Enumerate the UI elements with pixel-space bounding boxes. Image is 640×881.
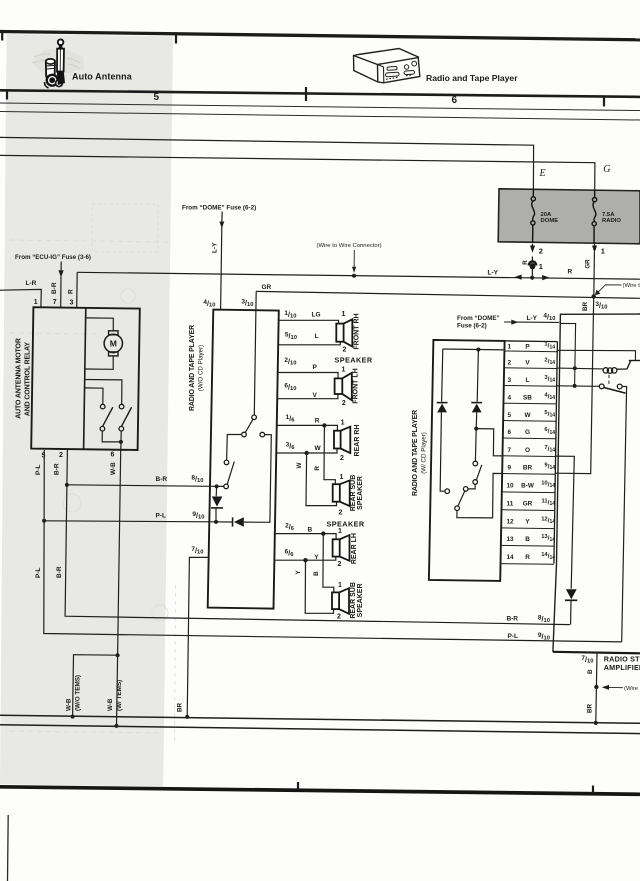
switch blade bbox=[604, 388, 626, 394]
interior wiring bbox=[440, 349, 505, 518]
svg-text:(W/ TEMS): (W/ TEMS) bbox=[116, 680, 123, 711]
junction dot row2 bbox=[573, 366, 577, 370]
svg-text:B-R: B-R bbox=[53, 463, 60, 475]
svg-text:W: W bbox=[524, 412, 531, 419]
pin 6/10 wire V bbox=[278, 394, 338, 399]
svg-text:BR: BR bbox=[177, 702, 184, 712]
L-R wire into relay pin 1 bbox=[0, 289, 41, 307]
speaker REAR SUB (upper) bbox=[333, 480, 350, 506]
svg-text:2: 2 bbox=[340, 455, 344, 462]
svg-text:R: R bbox=[525, 554, 530, 561]
radio stereo amplifier top edge bbox=[553, 652, 640, 654]
bottom-left page corner mark bbox=[7, 815, 10, 881]
svg-text:From “ECU-IG” Fuse (3-6): From “ECU-IG” Fuse (3-6) bbox=[15, 254, 91, 261]
diode D1 (down) bbox=[212, 497, 223, 507]
svg-text:Radio and Tape Player: Radio and Tape Player bbox=[426, 73, 518, 83]
top heavy border line bbox=[0, 32, 640, 40]
radio and tape player (W/ CD) box bbox=[429, 340, 505, 581]
junction dot under SW-R bbox=[119, 440, 123, 444]
svg-text:RADIO AND TAPE PLAYER: RADIO AND TAPE PLAYER bbox=[189, 325, 196, 411]
svg-text:P: P bbox=[313, 364, 318, 371]
svg-text:Fuse (6-2): Fuse (6-2) bbox=[457, 323, 487, 330]
fuse 20A DOME bbox=[531, 189, 536, 243]
svg-text:3: 3 bbox=[508, 377, 512, 384]
relay switch SW-L bbox=[100, 404, 105, 409]
junction dot on 9/10 wire bbox=[214, 520, 218, 524]
svg-text:V: V bbox=[313, 392, 318, 399]
svg-text:9: 9 bbox=[508, 465, 512, 472]
B branch to rear sub2 pin1 bbox=[323, 534, 334, 593]
svg-text:2: 2 bbox=[539, 247, 543, 256]
svg-text:V: V bbox=[525, 360, 530, 367]
row1 extension to contact bar bbox=[557, 350, 635, 360]
svg-text:GR: GR bbox=[523, 501, 533, 508]
svg-text:L-R: L-R bbox=[26, 280, 37, 287]
svg-text:L-Y: L-Y bbox=[527, 315, 538, 322]
svg-text:AMPLIFIER: AMPLIFIER bbox=[604, 663, 640, 672]
svg-text:GR: GR bbox=[584, 259, 591, 269]
svg-text:13: 13 bbox=[507, 536, 515, 543]
svg-text:E: E bbox=[539, 168, 546, 179]
svg-text:P-L: P-L bbox=[35, 568, 42, 579]
svg-text:2: 2 bbox=[508, 360, 512, 367]
relay internal divider bbox=[84, 308, 86, 449]
pin 2 B-R wire down bbox=[65, 450, 570, 625]
wire A corner down to relay pin 3 bbox=[76, 272, 79, 307]
wire B-R relay pin2 to pin 8/10 bbox=[67, 485, 211, 487]
junction dot fuse DOME to wire A bbox=[530, 276, 534, 280]
switch circles bbox=[445, 489, 450, 494]
relay switch SW-R bbox=[119, 404, 124, 409]
wire B corner down to pin 3/10 bbox=[255, 291, 257, 310]
junction dot top wire bbox=[476, 348, 480, 352]
auto antenna motor and control relay box bbox=[31, 307, 140, 450]
svg-text:1: 1 bbox=[601, 247, 605, 256]
svg-text:B-W: B-W bbox=[521, 483, 535, 490]
svg-text:B: B bbox=[587, 669, 594, 674]
svg-text:(Wire t: (Wire t bbox=[623, 283, 640, 289]
branch from 4/10 riser to relay rows bbox=[560, 323, 576, 386]
connector half-round, pin 1 bbox=[529, 261, 536, 265]
wire P-L relay pin5 to pin 9/10 bbox=[44, 521, 211, 522]
relay coil L1 bbox=[603, 368, 627, 374]
svg-text:W-B: W-B bbox=[66, 698, 73, 711]
svg-text:AND CONTROL RELAY: AND CONTROL RELAY bbox=[25, 342, 32, 417]
svg-text:G: G bbox=[525, 429, 530, 436]
junction dot P-L bbox=[42, 519, 46, 523]
auto antenna icon bbox=[31, 39, 84, 88]
junction dot row3 bbox=[573, 384, 577, 388]
svg-text:6: 6 bbox=[508, 429, 512, 436]
svg-text:6: 6 bbox=[452, 95, 458, 106]
junction dot B-R bbox=[65, 483, 69, 487]
dot W/O TEMS on rail1 bbox=[71, 715, 75, 719]
fuse 7.5A RADIO bbox=[592, 190, 597, 243]
bottom heavy border line bbox=[0, 787, 640, 795]
wire-to-wire arrows on wire A bbox=[514, 275, 521, 280]
svg-text:BR: BR bbox=[582, 301, 589, 311]
svg-text:FRONT RH: FRONT RH bbox=[353, 313, 360, 349]
svg-text:B: B bbox=[525, 536, 530, 543]
speaker REAR RH bbox=[334, 427, 350, 453]
svg-text:From “DOME” Fuse (6-2): From “DOME” Fuse (6-2) bbox=[182, 205, 256, 212]
row2 extension with relay coil bbox=[557, 367, 603, 370]
wire to fuse G (top feed) bbox=[0, 155, 595, 190]
svg-text:2: 2 bbox=[338, 561, 342, 568]
svg-text:O: O bbox=[525, 447, 530, 454]
thin rule B bbox=[0, 112, 640, 121]
svg-text:REAR LH: REAR LH bbox=[351, 533, 358, 564]
svg-text:AUTO ANTENNA MOTOR: AUTO ANTENNA MOTOR bbox=[16, 338, 23, 419]
svg-text:5: 5 bbox=[508, 412, 512, 419]
wire GR run (wire B) bbox=[256, 291, 640, 298]
svg-text:L: L bbox=[526, 377, 530, 384]
W-B (W/O TEMS) branch bbox=[73, 655, 118, 717]
svg-text:P: P bbox=[525, 344, 530, 351]
contact bar bbox=[629, 360, 640, 362]
connector arrow below DOME fuse, pin 2 bbox=[530, 246, 535, 253]
switch circles bbox=[252, 415, 257, 420]
BR continues to ground rail bbox=[595, 687, 598, 723]
svg-text:Auto Antenna: Auto Antenna bbox=[72, 72, 133, 82]
ground rail 1 bbox=[0, 715, 640, 723]
junction dot GR / wire B bbox=[592, 294, 596, 298]
motor M1 bbox=[109, 331, 118, 335]
svg-text:B-R: B-R bbox=[506, 616, 518, 623]
svg-text:1: 1 bbox=[342, 366, 346, 373]
ruler tick x306 bbox=[305, 87, 307, 101]
svg-text:SPEAKER: SPEAKER bbox=[327, 519, 365, 528]
svg-text:(W/O TEMS): (W/O TEMS) bbox=[75, 675, 82, 711]
svg-text:REAR RH: REAR RH bbox=[354, 425, 361, 457]
svg-text:(W/ CD Player): (W/ CD Player) bbox=[420, 432, 427, 474]
row3 extension to switch bbox=[557, 385, 600, 388]
connector arrow below RADIO fuse, pin 1 bbox=[592, 246, 597, 253]
diode D3 (up) bbox=[437, 402, 448, 404]
switch contact circles bbox=[599, 384, 604, 389]
tick above bottom border x298 bbox=[297, 782, 299, 790]
svg-text:R: R bbox=[522, 260, 529, 265]
speaker REAR SUB (lower) bbox=[332, 588, 349, 614]
svg-text:W: W bbox=[315, 445, 322, 452]
svg-text:SPEAKER: SPEAKER bbox=[357, 476, 364, 510]
svg-text:B-R: B-R bbox=[51, 282, 58, 294]
pin 1/10 wire LG bbox=[279, 320, 339, 323]
pin 6 W-B wire down bbox=[117, 450, 121, 726]
svg-text:P-L: P-L bbox=[35, 465, 42, 476]
diode D5 (down) bbox=[566, 589, 577, 599]
L-Y feed arrow to 4/10 riser bbox=[504, 321, 513, 323]
diode D4 (up) bbox=[471, 402, 482, 404]
svg-text:P-L: P-L bbox=[508, 633, 519, 640]
junction dot on 8/10 wire bbox=[215, 484, 219, 488]
4/10 long wire: right edge, down beside table, to amplifier top bbox=[553, 314, 640, 652]
ghost bleed-through marks in band bbox=[10, 204, 176, 745]
B-R feed arrow into relay pin 7 bbox=[60, 262, 62, 272]
svg-text:BR: BR bbox=[523, 465, 533, 472]
row texts bbox=[507, 342, 556, 562]
svg-text:1: 1 bbox=[338, 528, 342, 535]
svg-text:DOME: DOME bbox=[541, 218, 559, 224]
svg-text:R: R bbox=[68, 289, 75, 294]
switch commons to pin 6 bbox=[102, 431, 121, 450]
diode D2 (left) bbox=[234, 517, 244, 527]
ruler tick x604 bbox=[603, 97, 605, 107]
ruler tick x7 bbox=[6, 91, 8, 100]
svg-text:(Wire: (Wire bbox=[624, 686, 639, 692]
wire A : L-Y / R horizontal run bbox=[77, 272, 640, 279]
pin 6/6 wire Y bbox=[275, 557, 336, 561]
svg-text:1: 1 bbox=[338, 582, 342, 589]
GR wire from fuse down to junction bbox=[593, 252, 596, 296]
svg-text:2: 2 bbox=[337, 614, 341, 621]
arrowhead on L-Y drop bbox=[219, 222, 224, 229]
svg-text:(W/O CD Player): (W/O CD Player) bbox=[198, 345, 205, 391]
coil-armature mechanical link (dashed) bbox=[608, 375, 610, 384]
svg-text:11: 11 bbox=[507, 501, 514, 508]
svg-text:2: 2 bbox=[343, 347, 347, 354]
pin 5/10 wire L bbox=[278, 342, 340, 345]
junction dot centre bbox=[474, 427, 478, 431]
ruler heavy line bbox=[0, 90, 640, 97]
svg-text:L-Y: L-Y bbox=[212, 242, 219, 253]
svg-text:G: G bbox=[603, 164, 610, 175]
svg-text:FRONT LH: FRONT LH bbox=[352, 368, 359, 403]
switch output riser down to P-L wire bbox=[622, 387, 627, 642]
pin O row7 riser with diode to B-R wire bbox=[556, 456, 575, 588]
pin 2/10 wire P bbox=[278, 373, 338, 379]
arrow from note down to junction bbox=[353, 250, 355, 269]
ground rail 2 bbox=[0, 725, 640, 734]
svg-text:SB: SB bbox=[523, 394, 532, 401]
svg-text:W-B: W-B bbox=[107, 698, 114, 711]
svg-text:2: 2 bbox=[342, 400, 346, 407]
speaker FRONT RH bbox=[336, 319, 352, 346]
junction dot wire A x354 bbox=[352, 274, 356, 278]
svg-text:14: 14 bbox=[507, 554, 515, 561]
svg-text:GR: GR bbox=[262, 284, 272, 291]
radio and tape player icon bbox=[354, 49, 420, 83]
svg-text:5: 5 bbox=[42, 453, 46, 460]
svg-text:R: R bbox=[315, 417, 320, 424]
svg-text:1: 1 bbox=[341, 419, 345, 426]
speaker REAR LH bbox=[333, 535, 350, 561]
thin rule A bbox=[0, 103, 640, 111]
pin 2/6 wire B bbox=[275, 534, 336, 540]
BR riser from GR junction down to row 9 bbox=[555, 297, 593, 474]
L-Y drop from DOME fuse note to pin 4/10 bbox=[221, 212, 223, 310]
svg-text:10: 10 bbox=[507, 483, 515, 490]
svg-text:1: 1 bbox=[342, 311, 346, 318]
svg-text:RADIO: RADIO bbox=[602, 218, 621, 224]
svg-text:SPEAKER: SPEAKER bbox=[335, 355, 373, 364]
svg-text:L-Y: L-Y bbox=[488, 270, 499, 277]
svg-text:LG: LG bbox=[312, 312, 321, 319]
svg-text:R: R bbox=[568, 269, 573, 276]
svg-text:3: 3 bbox=[70, 299, 74, 306]
amplifier pin 7/10 wire B down bbox=[595, 653, 598, 687]
svg-text:L: L bbox=[315, 333, 319, 340]
contact blade bbox=[627, 361, 631, 369]
dot W TEMS on rail2 bbox=[115, 724, 119, 728]
svg-text:B: B bbox=[313, 571, 320, 576]
svg-text:7: 7 bbox=[508, 447, 512, 454]
svg-text:4: 4 bbox=[508, 394, 512, 401]
pin 1/6 wire R bbox=[277, 425, 338, 430]
svg-text:REAR SUB: REAR SUB bbox=[350, 582, 357, 619]
svg-text:5: 5 bbox=[154, 92, 160, 103]
svg-text:REAR SUB: REAR SUB bbox=[350, 475, 357, 512]
speaker FRONT LH bbox=[335, 373, 352, 400]
motor M1 wiring bbox=[84, 318, 122, 404]
pin 5 P-L wire down bbox=[44, 450, 622, 642]
svg-text:BR: BR bbox=[587, 703, 594, 713]
W branch to rear sub pin2 bbox=[306, 453, 337, 506]
tick above bottom border x593 bbox=[592, 786, 594, 794]
svg-text:2: 2 bbox=[339, 510, 343, 517]
wire-to-wire junction dot bbox=[594, 685, 598, 689]
svg-text:7: 7 bbox=[53, 299, 57, 306]
svg-text:RADIO AND TAPE PLAYER: RADIO AND TAPE PLAYER bbox=[412, 410, 419, 496]
svg-text:From “DOME”: From “DOME” bbox=[457, 315, 500, 322]
svg-text:W: W bbox=[296, 462, 303, 468]
svg-text:B-R: B-R bbox=[56, 566, 63, 578]
svg-text:1: 1 bbox=[340, 474, 344, 481]
svg-text:M: M bbox=[110, 339, 117, 349]
W-B junction dot bbox=[116, 653, 120, 657]
svg-text:B: B bbox=[308, 527, 313, 534]
svg-text:Y: Y bbox=[525, 519, 530, 526]
svg-text:1: 1 bbox=[508, 344, 512, 351]
tick on top border at x=176 bbox=[175, 35, 177, 44]
svg-text:SPEAKER: SPEAKER bbox=[357, 583, 364, 617]
row separator lines bbox=[501, 351, 558, 564]
pin table outer edge bbox=[554, 342, 558, 564]
svg-text:12: 12 bbox=[507, 519, 515, 526]
interior: 3/10 switch chain bbox=[210, 310, 271, 522]
svg-text:B-R: B-R bbox=[156, 476, 168, 483]
Y branch to rear sub2 pin2 bbox=[305, 560, 333, 613]
svg-text:W-B: W-B bbox=[110, 462, 117, 475]
pin 3/6 wire W bbox=[276, 449, 337, 454]
radio and tape player (W/O CD) box bbox=[208, 310, 279, 609]
pin table top edge bbox=[505, 340, 558, 343]
svg-text:1: 1 bbox=[34, 299, 38, 306]
svg-text:R: R bbox=[314, 466, 321, 471]
svg-text:Y: Y bbox=[314, 554, 319, 561]
fuse box (shaded) bbox=[498, 189, 640, 244]
svg-text:(Wire to Wire Connector): (Wire to Wire Connector) bbox=[317, 243, 382, 249]
svg-text:P-L: P-L bbox=[156, 512, 167, 519]
dot on rail1 bbox=[594, 721, 598, 725]
tick left end of top border bbox=[1, 32, 3, 41]
wire to fuse E (top feed) bbox=[0, 137, 534, 189]
svg-text:6: 6 bbox=[111, 452, 115, 459]
grey page band (left column shading) bbox=[0, 34, 173, 787]
svg-text:1: 1 bbox=[539, 262, 543, 271]
svg-text:2: 2 bbox=[59, 452, 63, 459]
R branch to rear sub pin1 bbox=[324, 425, 335, 484]
